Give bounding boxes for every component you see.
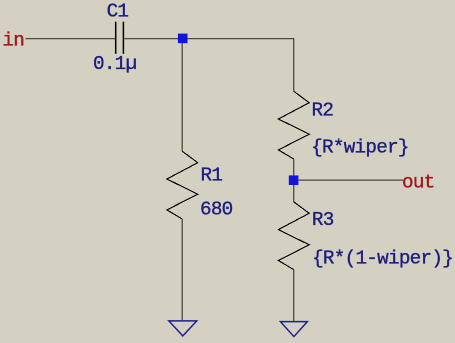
wire xyxy=(298,179,403,181)
svg-text:{R*wiper}: {R*wiper} xyxy=(311,137,409,159)
resistor R2 xyxy=(278,91,309,159)
junction xyxy=(178,34,188,44)
wire xyxy=(181,43,183,151)
ground xyxy=(280,322,307,337)
svg-text:680: 680 xyxy=(200,198,233,220)
wire xyxy=(293,159,295,202)
wire xyxy=(181,219,183,320)
ground xyxy=(169,321,197,336)
wire xyxy=(293,270,295,321)
wire xyxy=(26,38,116,40)
svg-text:R2: R2 xyxy=(312,100,334,122)
resistor R1 xyxy=(167,151,198,219)
svg-text:in: in xyxy=(2,29,24,51)
junction xyxy=(289,175,299,185)
svg-text:out: out xyxy=(402,171,435,193)
svg-text:R1: R1 xyxy=(201,164,223,186)
svg-text:C1: C1 xyxy=(107,0,129,22)
svg-text:{R*(1-wiper)}: {R*(1-wiper)} xyxy=(312,248,453,270)
resistor R3 xyxy=(278,202,309,270)
svg-text:R3: R3 xyxy=(312,209,334,231)
wire xyxy=(124,39,294,92)
svg-text:0.1µ: 0.1µ xyxy=(93,53,137,75)
capacitor C1 xyxy=(116,22,124,54)
